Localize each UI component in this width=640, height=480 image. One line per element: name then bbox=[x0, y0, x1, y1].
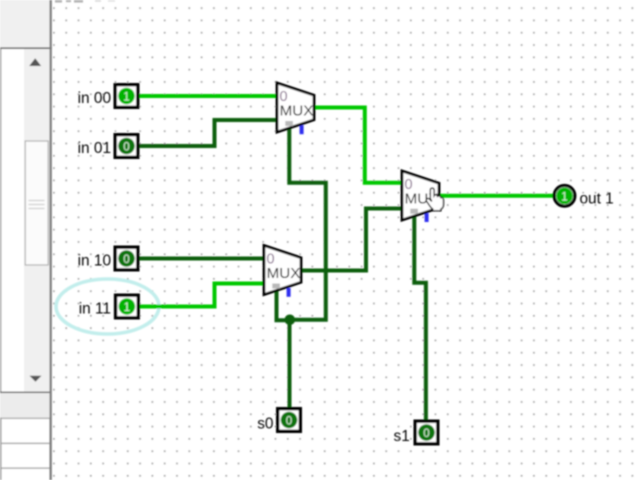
attribute table row line 1 bbox=[0, 418, 50, 419]
attribute table row line 2 bbox=[0, 443, 50, 444]
scrollbar up arrow bbox=[29, 58, 41, 66]
toolbar remnant smudges at very top bbox=[55, 0, 115, 3]
svg-text:1: 1 bbox=[123, 91, 129, 104]
svg-text:1: 1 bbox=[561, 190, 567, 203]
svg-text:in 10: in 10 bbox=[78, 253, 111, 270]
pin s1 (value 0) bbox=[415, 421, 438, 444]
svg-text:0: 0 bbox=[123, 141, 129, 154]
pin out1 (value 1) bbox=[554, 186, 575, 207]
mux U1 enable stub (floating, blue) bbox=[300, 125, 304, 134]
wire s0 net: junction to MUX2 select (dark) bbox=[277, 291, 291, 321]
svg-text:0: 0 bbox=[286, 415, 292, 428]
wire MUX1 output to MUX3 in0 (bright, value 1) bbox=[314, 108, 402, 183]
junction dot s0 net bbox=[285, 315, 296, 326]
wire MUX3 output to out pin (bright, value 1) bbox=[439, 194, 554, 198]
pin in01 (value 0) bbox=[115, 135, 138, 158]
mux U3 body bbox=[402, 171, 439, 220]
wire in10 to MUX2 in0 (dark, value 0) bbox=[139, 257, 264, 261]
svg-text:s0: s0 bbox=[257, 415, 273, 432]
svg-text:0: 0 bbox=[404, 177, 412, 193]
attribute table header row bbox=[0, 393, 50, 418]
mux U1 select marker (gray) bbox=[285, 121, 293, 126]
panel splitter border bbox=[50, 0, 52, 480]
mux U2 enable stub (floating, blue) bbox=[287, 288, 291, 297]
mux U3 select marker (gray) bbox=[410, 209, 418, 214]
svg-text:0: 0 bbox=[123, 253, 129, 266]
scrollbar thumb bbox=[25, 141, 48, 265]
panel left edge line bbox=[0, 49, 1, 480]
mux U1 body bbox=[277, 83, 314, 132]
pin in10 (value 0) bbox=[115, 247, 138, 270]
svg-text:0: 0 bbox=[266, 252, 274, 268]
pin s0 (value 0) bbox=[278, 409, 301, 432]
toolbar corner box bbox=[0, 0, 50, 47]
wire s0 net: MUX1 select jog down (dark, value 0) bbox=[289, 128, 326, 320]
explorer pane background bbox=[0, 49, 50, 392]
scrollbar thumb grip bbox=[29, 201, 45, 209]
wire s1 net: MUX3 select to s1 pin (dark, value 0) bbox=[414, 216, 426, 420]
svg-text:MUX: MUX bbox=[267, 265, 301, 282]
mux U3 enable stub (floating, blue) bbox=[425, 213, 429, 222]
wire in00 to MUX1 in0 (bright, value 1) bbox=[139, 94, 277, 98]
pin in00 (value 1) bbox=[115, 85, 138, 108]
attribute table row line 3 bbox=[0, 468, 50, 469]
mux U2 select marker (gray) bbox=[272, 284, 280, 289]
attribute table top border bbox=[0, 392, 50, 394]
svg-text:0: 0 bbox=[279, 89, 287, 105]
wire in01 to MUX1 in1 (dark, value 0) bbox=[140, 120, 278, 146]
svg-text:out 1: out 1 bbox=[580, 190, 614, 207]
toolbar corner bottom border bbox=[0, 47, 52, 49]
scrollbar track bbox=[24, 49, 50, 392]
wire s0 net: junction to s0 pin (dark) bbox=[288, 320, 292, 407]
scrollbar down arrow bbox=[30, 376, 42, 382]
svg-text:0: 0 bbox=[423, 427, 429, 440]
wire MUX2 output to MUX3 in1 (dark, value 0) bbox=[301, 209, 402, 271]
svg-text:in 00: in 00 bbox=[78, 90, 111, 107]
svg-text:in 01: in 01 bbox=[78, 140, 111, 157]
pin in11 (value 1) bbox=[116, 295, 139, 318]
wire in11 to MUX2 in1 (bright, value 1) bbox=[140, 284, 264, 307]
mux U2 body bbox=[264, 245, 301, 294]
svg-text:in 11: in 11 bbox=[79, 301, 111, 318]
poke-tool hand cursor over MUX3 bbox=[426, 188, 443, 211]
svg-text:s1: s1 bbox=[394, 428, 410, 445]
svg-text:1: 1 bbox=[124, 301, 130, 314]
selection halo ellipse around in 11 bbox=[56, 279, 159, 334]
